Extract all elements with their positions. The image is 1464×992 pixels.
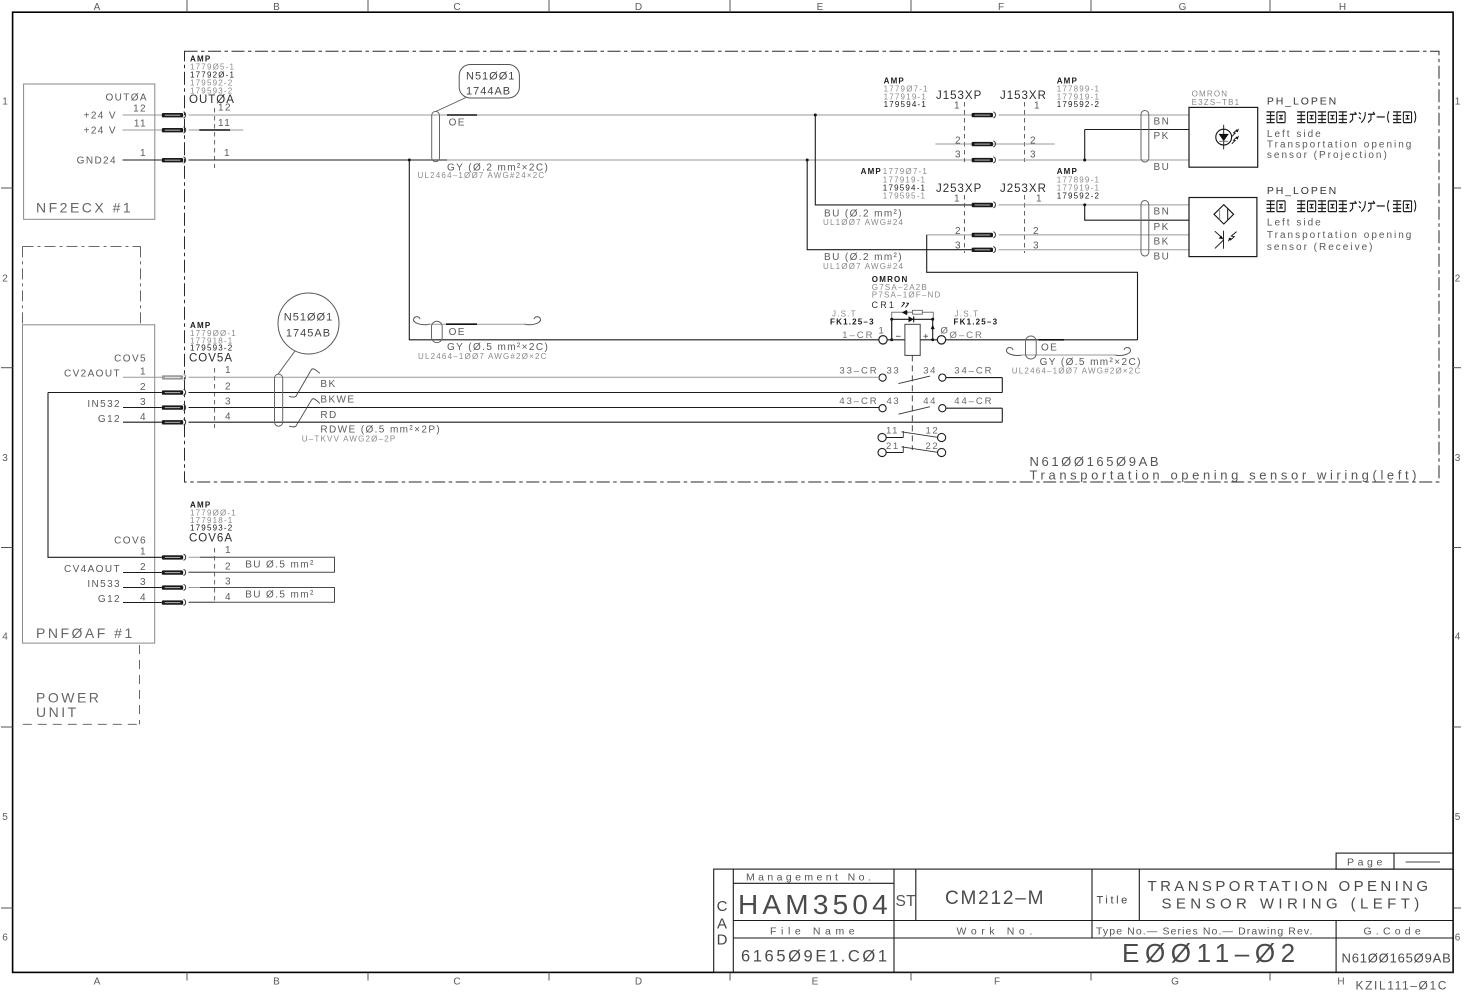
COV6A crimp pin 2 [162, 570, 183, 574]
COV5A crimp pin 1 (gray) [162, 375, 183, 379]
svg-text:UL2464–1ØØ7 AWG#2Ø×2C: UL2464–1ØØ7 AWG#2Ø×2C [1012, 366, 1142, 375]
relay junction dots [890, 318, 893, 321]
svg-text:Transportation opening: Transportation opening [1267, 230, 1413, 241]
wire BU#1 from +24V to J253XP pin1 [815, 115, 971, 205]
pair1 end vertical [1001, 378, 1003, 393]
svg-text:Left side: Left side [1267, 218, 1323, 229]
svg-text:11: 11 [134, 119, 147, 130]
svg-text:2: 2 [140, 562, 147, 573]
cable shield left assembly (GY 0.5) hooks [413, 317, 430, 325]
svg-text:Left side: Left side [1267, 129, 1323, 140]
svg-text:2: 2 [1033, 226, 1040, 237]
svg-text:CV4AOUT: CV4AOUT [64, 564, 121, 575]
svg-text:179593-2: 179593-2 [190, 344, 233, 353]
J253XP crimp pin 3 [972, 248, 993, 252]
cable shield oval COV5A [275, 374, 283, 426]
relay actuator dashed link [911, 355, 913, 450]
balloon leader (1744AB) [436, 98, 466, 112]
svg-text:UL2464–1ØØ7 AWG#24×2C: UL2464–1ØØ7 AWG#24×2C [418, 171, 546, 180]
relay coil polarity minus [896, 335, 901, 337]
svg-text:3: 3 [1030, 150, 1037, 161]
wire J153XR pin1 to sensor1 BN [999, 114, 1190, 116]
svg-text:OUTØA: OUTØA [105, 93, 148, 104]
svg-text:1: 1 [1034, 101, 1041, 112]
shield drain wire right assembly [1021, 354, 1116, 356]
svg-text:UL1ØØ7 AWG#24: UL1ØØ7 AWG#24 [823, 218, 904, 227]
wire J253XR pin2 to sensor2 BK [999, 234, 1190, 236]
svg-text:BU Ø.5 mm²: BU Ø.5 mm² [245, 560, 315, 571]
svg-text:22: 22 [926, 441, 940, 452]
svg-text:33–CR: 33–CR [839, 366, 878, 377]
shield drain wire left assembly [428, 323, 526, 325]
svg-text:CV2AOUT: CV2AOUT [64, 368, 121, 379]
svg-text:4: 4 [140, 592, 147, 603]
wire J153XR pin3 to sensor1 BU [999, 159, 1190, 161]
OUT0A crimp pin 11 [162, 128, 183, 132]
svg-text:IN532: IN532 [87, 399, 121, 410]
wire GND24 drop to relay 1-CR [409, 160, 879, 340]
cable shield oval (GY 0.5 right) [1026, 336, 1037, 359]
svg-text:179593-2: 179593-2 [190, 524, 233, 533]
balloon N51001 1745AB circle [278, 293, 339, 354]
twisted pair mark RD/RDWE [289, 399, 320, 427]
svg-text:33: 33 [887, 366, 901, 377]
svg-text:Work No.: Work No. [957, 926, 1037, 938]
relay terminal circle 1-CR [879, 336, 887, 344]
balloon N51001 1744AB [459, 65, 519, 99]
svg-text:2: 2 [140, 382, 147, 393]
wire 34-CR to pair end [946, 377, 1002, 379]
relay diode symbol [909, 316, 914, 322]
svg-text:4: 4 [1455, 632, 1463, 643]
svg-text:43: 43 [887, 396, 901, 407]
svg-text:1: 1 [2, 97, 10, 108]
svg-text:COV6: COV6 [114, 536, 147, 547]
OUT0A pin 12 lead [123, 114, 162, 116]
J153 boundary dashed lines [964, 102, 966, 162]
svg-text:Transportation opening sensor: Transportation opening sensor wiring(lef… [1030, 468, 1421, 483]
svg-text:2: 2 [1030, 136, 1037, 147]
svg-text:FK1.25–3: FK1.25–3 [830, 317, 875, 326]
svg-text:PNFØAF #1: PNFØAF #1 [36, 625, 135, 641]
svg-text:sensor (Projection): sensor (Projection) [1267, 150, 1389, 161]
COV5A crimp pin 3 [162, 405, 183, 409]
svg-text:TRANSPORTATION OPENING: TRANSPORTATION OPENING [1148, 878, 1432, 895]
svg-text:3: 3 [140, 397, 147, 408]
title block CAD column [717, 898, 728, 949]
junction +24V to J253 BU drop [814, 114, 817, 117]
J153XP crimp pin 1 [972, 113, 993, 117]
svg-text:1: 1 [140, 148, 147, 159]
wire sensor1 PK link vertical [1084, 130, 1086, 161]
border column ticks top [187, 0, 1270, 12]
svg-text:G12: G12 [98, 594, 121, 605]
svg-text:3: 3 [1455, 453, 1463, 464]
svg-text:43–CR: 43–CR [839, 396, 878, 407]
relay diode row [892, 318, 933, 320]
svg-text:1–CR: 1–CR [842, 330, 874, 341]
relay terminal circle 0-CR [937, 336, 945, 344]
svg-text:Title: Title [1097, 895, 1130, 907]
svg-text:4: 4 [225, 592, 232, 603]
svg-text:179592-2: 179592-2 [1057, 192, 1100, 201]
svg-text:UNIT: UNIT [36, 704, 79, 720]
svg-text:Type No.— Series No.— Drawing: Type No.— Series No.— Drawing Rev. [1096, 926, 1314, 938]
svg-text:3: 3 [2, 453, 10, 464]
shield drain black ident segment [446, 323, 477, 325]
svg-text:RD: RD [320, 410, 337, 421]
svg-text:N51ØØ1: N51ØØ1 [284, 312, 333, 324]
relay suppression bracket gray path [892, 312, 934, 340]
svg-text:COV5: COV5 [114, 354, 147, 365]
wire GND24 gray portion to J153XP pin3 [447, 159, 972, 161]
svg-text:2: 2 [955, 226, 962, 237]
cable shield oval at sensor2 [1141, 201, 1149, 257]
svg-text:3: 3 [225, 396, 232, 407]
svg-text:1: 1 [140, 547, 147, 558]
svg-text:+24 V: +24 V [84, 125, 117, 136]
svg-text:1: 1 [225, 545, 232, 556]
svg-text:Page: Page [1347, 856, 1386, 868]
COV5A crimp pin 4 [162, 420, 183, 424]
svg-text:BU: BU [1154, 251, 1171, 262]
svg-text:NF2ECX #1: NF2ECX #1 [36, 200, 133, 216]
svg-text:Ø: Ø [941, 326, 949, 337]
J253 boundary dashed lines [964, 195, 966, 253]
svg-text:PK: PK [1154, 222, 1170, 233]
svg-text:2: 2 [225, 562, 232, 573]
relay coil box [905, 324, 920, 355]
svg-text:H: H [1337, 977, 1346, 988]
svg-text:OE: OE [1041, 342, 1058, 353]
junction sensor2 PK tie [1083, 203, 1086, 206]
svg-text:COV6A: COV6A [189, 532, 233, 544]
harness assembly dash-dot boundary box N610016509AB [185, 51, 1440, 482]
svg-text:H: H [1339, 2, 1348, 13]
pair2 end vertical [1001, 408, 1003, 422]
svg-text:11: 11 [218, 118, 231, 129]
COV6A boundary dashed line [214, 548, 216, 603]
dash-dot sub-box between NF2ECX and PNF0AF [23, 246, 141, 324]
wire RDWE COV5A pin4 to pair end [189, 421, 1003, 423]
COV5 pin leads A-side [123, 376, 162, 378]
sensor U1 PH_LOPEN projection box [1189, 107, 1258, 167]
svg-text:179595-1: 179595-1 [883, 192, 926, 201]
svg-text:N51ØØ1: N51ØØ1 [466, 71, 515, 83]
svg-text:BU: BU [1154, 162, 1171, 173]
wire sensor1 PK link horizontal [1085, 129, 1189, 131]
wire +24V pin12 to J153XP pin1 (gray) [189, 114, 972, 116]
svg-text:1745AB: 1745AB [286, 328, 331, 340]
sensor1 LED symbol [1216, 125, 1239, 150]
svg-text:5: 5 [2, 812, 10, 823]
svg-text:1: 1 [225, 365, 232, 376]
svg-text:2: 2 [225, 382, 232, 393]
module PNF0AF #1 box [23, 325, 155, 643]
svg-text:sensor (Receive): sensor (Receive) [1267, 242, 1375, 253]
wire GND24 black portion to shield [189, 159, 448, 161]
svg-text:A: A [94, 977, 103, 988]
wire sensor2 BK to relay 0-CR [927, 235, 1138, 340]
svg-text:12: 12 [218, 103, 232, 114]
svg-text:+24 V: +24 V [84, 110, 117, 121]
svg-text:PH_LOPEN: PH_LOPEN [1267, 185, 1338, 197]
J153 pin2 stub wire [935, 143, 1054, 145]
wire 44-CR to pair end [946, 407, 1002, 409]
svg-text:ST: ST [896, 893, 917, 910]
svg-text:G: G [1179, 2, 1189, 13]
relay coil polarity plus [924, 334, 929, 339]
border zone numbers right [1455, 97, 1463, 944]
wire sensor2 PK link [1085, 205, 1189, 220]
module POWER UNIT dashed box [23, 645, 140, 724]
page box [1336, 853, 1453, 869]
svg-text:COV5A: COV5A [189, 352, 233, 364]
cable shield oval at sensor1 [1141, 111, 1149, 163]
svg-text:BU Ø.5 mm²: BU Ø.5 mm² [245, 590, 315, 601]
svg-text:IN533: IN533 [87, 579, 121, 590]
wire +24V black ident segment after shield [447, 114, 477, 116]
svg-text:3: 3 [140, 577, 147, 588]
svg-text:Ø–CR: Ø–CR [950, 330, 984, 341]
svg-text:EØØ11–Ø2: EØØ11–Ø2 [1122, 938, 1301, 968]
OUT0A crimp pin 12 [162, 113, 183, 117]
border column ticks bottom [187, 972, 1270, 980]
svg-text:AMP: AMP [861, 167, 882, 176]
svg-text:D: D [635, 977, 644, 988]
COV5A crimp pin 2 [162, 390, 183, 394]
relay indicator LED small [903, 311, 907, 315]
svg-text:A: A [94, 2, 103, 13]
svg-text:SENSOR WIRING (LEFT): SENSOR WIRING (LEFT) [1162, 896, 1424, 913]
svg-text:OE: OE [449, 117, 466, 128]
relay resistor box [913, 310, 923, 314]
svg-text:3: 3 [225, 577, 232, 588]
svg-text:C: C [453, 2, 462, 13]
svg-text:2: 2 [1455, 274, 1463, 285]
svg-text:OE: OE [449, 327, 466, 338]
svg-text:D: D [635, 2, 644, 13]
border zone letters bottom [94, 977, 1347, 988]
wire pin11 stub [189, 129, 244, 131]
sensor U2 PH_LOPEN receive box [1189, 198, 1257, 257]
svg-text:12: 12 [133, 104, 147, 115]
svg-text:BKWE: BKWE [320, 394, 355, 405]
svg-text:4: 4 [2, 632, 10, 643]
svg-text:D: D [717, 932, 728, 949]
J253XP crimp pin 1 [972, 203, 993, 207]
svg-text:CM212–M: CM212–M [945, 888, 1045, 909]
svg-text:C: C [453, 977, 462, 988]
COV5A boundary dashed line [214, 368, 216, 428]
svg-text:6: 6 [1455, 933, 1463, 944]
svg-text:6165Ø9E1.CØ1: 6165Ø9E1.CØ1 [741, 948, 890, 966]
svg-text:G12: G12 [98, 414, 121, 425]
svg-text:BN: BN [1154, 117, 1171, 128]
relay left branch vertical [891, 319, 893, 340]
svg-text:B: B [273, 2, 282, 13]
svg-text:2: 2 [2, 274, 10, 285]
J153XP crimp pin 2 [972, 142, 993, 146]
svg-text:C: C [717, 898, 728, 915]
sensor2 japanese description [1267, 200, 1416, 211]
junction GND24 to J253 BU drop [806, 159, 809, 162]
wire J253XR pin3 to sensor2 BU [999, 249, 1190, 251]
BU cable box pins 1-2 [189, 557, 335, 572]
svg-text:34–CR: 34–CR [954, 366, 993, 377]
svg-text:1744AB: 1744AB [466, 86, 511, 98]
svg-text:21: 21 [886, 441, 900, 452]
junction GND24 to relay coil drop [408, 159, 411, 162]
svg-text:179594-1: 179594-1 [884, 100, 927, 109]
twisted pair mark BK/BKWE [289, 369, 320, 397]
svg-text:1: 1 [224, 148, 231, 159]
wire black ident segment near right shield [1039, 339, 1064, 341]
svg-text:1: 1 [1455, 97, 1463, 108]
wire RD COV5A pin3 to contact 43 [189, 407, 880, 409]
svg-text:U–TKVV AWG2Ø–2P: U–TKVV AWG2Ø–2P [302, 434, 397, 443]
svg-text:P7SA–1ØF–ND: P7SA–1ØF–ND [872, 291, 942, 300]
svg-text:E: E [817, 2, 826, 13]
J253XP crimp pin 2 [972, 233, 993, 237]
relay coil wire right [920, 339, 937, 341]
svg-text:F: F [994, 977, 1002, 988]
svg-text:E: E [812, 977, 821, 988]
sensor1 japanese description [1267, 111, 1416, 122]
border row ticks left [1, 188, 13, 908]
OUT0A B-side boundary dashed line [214, 108, 216, 168]
svg-text:HAM3504: HAM3504 [738, 889, 892, 920]
svg-text:CR1: CR1 [872, 300, 897, 310]
relay right branch vertical with arrow [932, 319, 934, 340]
border zone letters top [94, 2, 1348, 13]
wire BKWE COV5A pin2 to pair end [189, 392, 1003, 394]
title block [714, 869, 1453, 972]
sensor2 receiver diamond symbol [1214, 205, 1234, 224]
svg-text:34: 34 [923, 366, 937, 377]
border zone numbers left [2, 97, 10, 944]
svg-text:6: 6 [2, 933, 10, 944]
svg-text:B: B [273, 977, 282, 988]
svg-text:BK: BK [1154, 237, 1170, 248]
svg-text:5: 5 [1455, 812, 1463, 823]
svg-text:11: 11 [886, 426, 899, 437]
COV6A pin stubs B-side [189, 556, 216, 558]
svg-text:BK: BK [320, 379, 336, 390]
OUT0A crimp pin 1 [162, 158, 183, 162]
border row ticks right [1453, 188, 1461, 908]
svg-text:UL1ØØ7 AWG#24: UL1ØØ7 AWG#24 [823, 262, 904, 271]
svg-text:A: A [717, 916, 727, 933]
COV6A crimp pin 4 [162, 600, 183, 604]
svg-text:GND24: GND24 [77, 155, 117, 166]
relay coil wire left [887, 339, 905, 341]
cable shield oval GY0.2 [432, 111, 440, 161]
svg-text:N61ØØ165Ø9AB: N61ØØ165Ø9AB [1342, 951, 1452, 966]
relay spark marks [902, 303, 909, 308]
svg-text:44: 44 [923, 396, 937, 407]
cable shield right assembly hooks [1006, 348, 1023, 356]
module NF2ECX #1 box [24, 84, 155, 219]
svg-text:KZIL111–Ø1C: KZIL111–Ø1C [1356, 979, 1449, 992]
svg-text:FK1.25–3: FK1.25–3 [954, 317, 999, 326]
BU cable box pins 3-4 [189, 588, 335, 603]
J153XP crimp pin 3 [972, 158, 993, 162]
svg-text:Transportation opening: Transportation opening [1267, 140, 1413, 151]
sensor2 photodetector symbol [1215, 231, 1237, 249]
svg-text:179592-2: 179592-2 [1057, 100, 1100, 109]
wire BK COV5A pin1 to contact 33 [189, 376, 880, 378]
svg-text:Management No.: Management No. [746, 872, 874, 884]
COV6A crimp pin 1 [162, 555, 183, 559]
OUT0A pin 11 lead [123, 129, 162, 131]
svg-text:4: 4 [140, 412, 147, 423]
svg-text:3: 3 [955, 150, 962, 161]
svg-text:44–CR: 44–CR [954, 396, 993, 407]
svg-text:4: 4 [225, 411, 232, 422]
svg-text:12: 12 [926, 426, 940, 437]
COV6A crimp pin 3 [162, 585, 183, 589]
wire J253XR pin1 to sensor2 BN [999, 204, 1190, 206]
svg-text:G.Code: G.Code [1364, 926, 1425, 938]
svg-text:2: 2 [955, 136, 962, 147]
svg-text:1: 1 [954, 194, 961, 205]
svg-text:G: G [1171, 977, 1181, 988]
svg-text:UL2464–1ØØ7 AWG#2Ø×2C: UL2464–1ØØ7 AWG#2Ø×2C [418, 352, 548, 361]
svg-text:1: 1 [140, 367, 147, 378]
svg-text:E3ZS–TB1: E3ZS–TB1 [1192, 98, 1241, 107]
cable shield oval (GY 0.5 left) [432, 321, 443, 342]
svg-text:1: 1 [1036, 194, 1043, 205]
wire pin11 black ident segment [199, 129, 230, 131]
svg-text:1: 1 [879, 326, 884, 337]
svg-text:F: F [998, 2, 1006, 13]
balloon leader (1745AB) [278, 351, 295, 374]
svg-text:PH_LOPEN: PH_LOPEN [1267, 96, 1338, 108]
J253XP pin2 lead stub [927, 234, 972, 236]
wire BKWE return chain to COV6 pin1 [48, 393, 162, 558]
wire BU#2 from GND24 to J253XP pin3 [807, 160, 971, 250]
page dash [1406, 861, 1440, 863]
junction sensor1 PK tie [1083, 159, 1086, 162]
svg-text:BN: BN [1154, 207, 1171, 218]
svg-text:3: 3 [955, 240, 962, 251]
OUT0A pin 1 lead [123, 159, 162, 161]
svg-text:File Name: File Name [770, 926, 859, 938]
COV6 pin leads A-side [123, 572, 162, 574]
wire 0-CR to sensor2 BK drop [946, 339, 1138, 341]
svg-text:PK: PK [1154, 131, 1170, 142]
svg-text:1: 1 [954, 101, 961, 112]
